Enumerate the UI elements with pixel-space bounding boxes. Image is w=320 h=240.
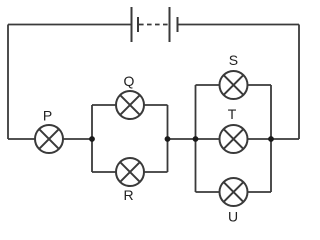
battery cell 2 long plate (positive) bbox=[169, 7, 171, 42]
svg-text:P: P bbox=[43, 108, 52, 124]
lamp R bbox=[116, 158, 144, 186]
svg-text:T: T bbox=[228, 106, 237, 122]
wire lamp P to node A bbox=[63, 138, 92, 140]
wire node A to lamp R bbox=[92, 171, 116, 173]
node B junction dot bbox=[165, 136, 171, 142]
wire top-right (battery to top-right corner) bbox=[178, 24, 300, 26]
node A junction dot bbox=[89, 136, 95, 142]
wire node D to right side bbox=[271, 138, 299, 140]
wire lamp T to node D bbox=[248, 138, 272, 140]
wire S/T/U right branch vertical at node D bbox=[270, 85, 272, 192]
wire Q/R left branch vertical at node A bbox=[91, 105, 93, 172]
svg-text:S: S bbox=[229, 52, 238, 68]
svg-text:Q: Q bbox=[124, 73, 135, 89]
wire node C to lamp T bbox=[196, 138, 220, 140]
wire node C to lamp S bbox=[196, 84, 220, 86]
wire lamp S to right branch bbox=[248, 84, 272, 86]
battery cell 2 short plate (negative) bbox=[177, 17, 179, 32]
wire node A to lamp Q bbox=[92, 104, 116, 106]
wire main line left to lamp P bbox=[8, 138, 35, 140]
wire node B to node C bbox=[168, 138, 196, 140]
lamp S bbox=[220, 71, 248, 99]
wire lamp R to node B bbox=[144, 171, 168, 173]
wire lamp Q to node B bbox=[144, 104, 168, 106]
wire Q/R right branch vertical at node B bbox=[167, 105, 169, 172]
battery cell 1 short plate (negative) bbox=[137, 17, 139, 32]
wire top-left (battery to top-left corner) bbox=[8, 24, 131, 26]
svg-text:R: R bbox=[123, 187, 133, 203]
wire dashed between battery cells bbox=[139, 24, 169, 26]
lamp T bbox=[220, 125, 248, 153]
wire node C to lamp U bbox=[196, 191, 220, 193]
lamp Q bbox=[116, 91, 144, 119]
lamp U bbox=[220, 178, 248, 206]
node D junction dot bbox=[268, 136, 274, 142]
wire S/T/U left branch vertical at node C bbox=[195, 85, 197, 192]
wire right side (top-right corner down to node D) bbox=[298, 25, 300, 140]
svg-text:U: U bbox=[228, 209, 238, 225]
wire lamp U to right branch bbox=[248, 191, 272, 193]
battery cell 1 long plate (positive) bbox=[131, 7, 133, 42]
lamp P bbox=[35, 125, 63, 153]
node C junction dot bbox=[193, 136, 199, 142]
wire left side (top-left corner down to main line) bbox=[7, 25, 9, 140]
